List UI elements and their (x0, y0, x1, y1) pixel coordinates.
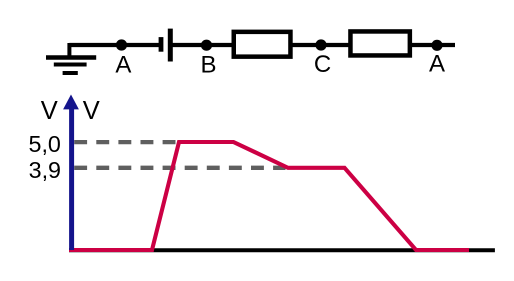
svg-text:V: V (83, 97, 100, 125)
svg-text:A: A (429, 50, 445, 77)
svg-text:B: B (200, 52, 216, 79)
svg-text:5,0: 5,0 (29, 131, 61, 157)
svg-text:3,9: 3,9 (29, 157, 61, 183)
svg-text:C: C (314, 51, 331, 78)
svg-text:V: V (41, 97, 58, 125)
svg-text:A: A (115, 51, 131, 78)
